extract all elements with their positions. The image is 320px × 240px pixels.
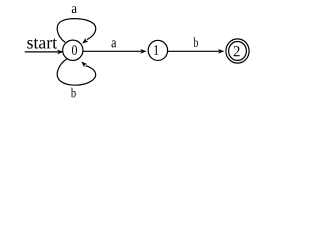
label a (top self-loop) bbox=[72, 6, 77, 13]
label b (edge 1 to 2) bbox=[194, 37, 198, 47]
label a (edge 0 to 1) bbox=[112, 40, 117, 47]
label start bbox=[27, 38, 57, 48]
start arrow bbox=[25, 50, 64, 55]
edge from state 0 to state 1 bbox=[83, 49, 147, 54]
edge from state 1 to state 2 bbox=[168, 49, 225, 54]
self-loop a on state 0 (top) bbox=[57, 19, 95, 46]
state 1 bbox=[148, 40, 167, 60]
state 0 bbox=[63, 40, 83, 60]
self-loop b on state 0 (bottom) bbox=[57, 59, 95, 85]
label b (bottom self-loop) bbox=[71, 88, 76, 98]
state 2 (accepting state, double circle) bbox=[226, 39, 249, 63]
